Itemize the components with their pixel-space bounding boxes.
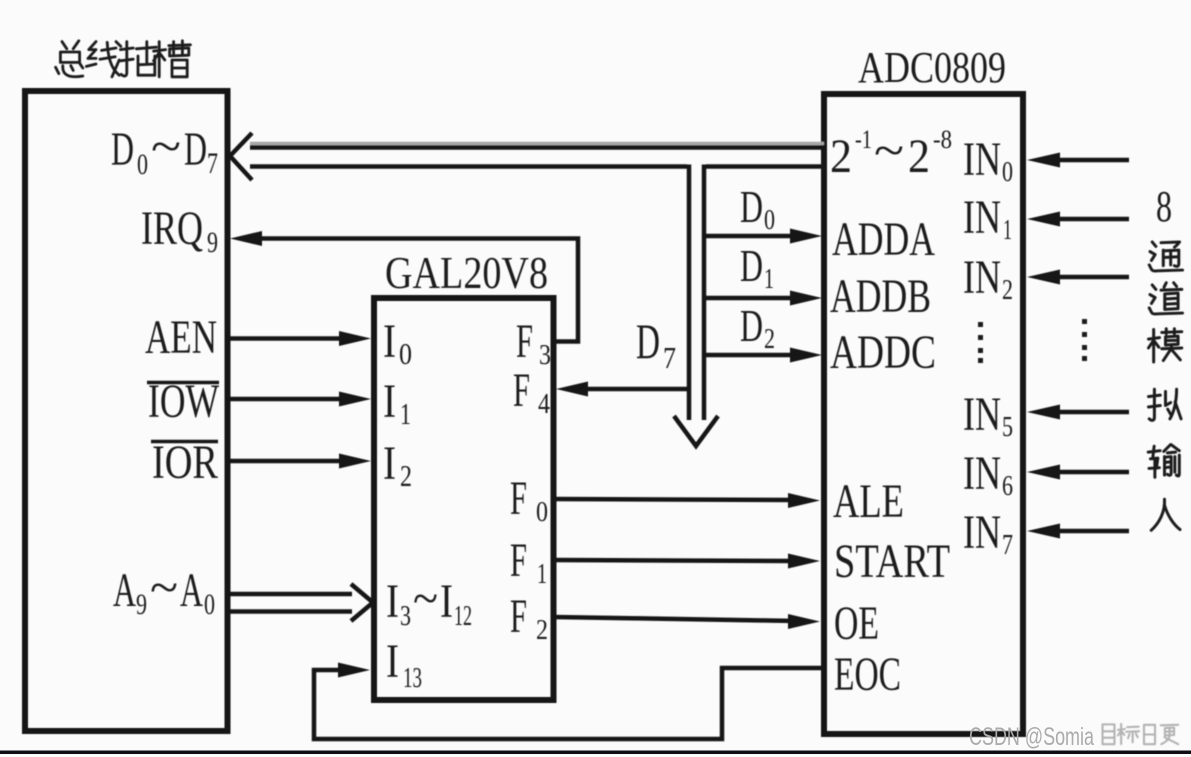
svg-text:13: 13 [403, 663, 422, 694]
wire bus D0~D7 from ADC to bus slot (double line with open arrow) [230, 133, 824, 180]
ellipsis dots inside ADC IN column [978, 322, 983, 363]
svg-text:CSDN @Somia: CSDN @Somia [969, 723, 1094, 751]
svg-text:1: 1 [400, 396, 411, 431]
net D7 to F4 [556, 382, 689, 397]
pin label IRQ9 (bus slot) [141, 202, 218, 259]
svg-text:3: 3 [400, 601, 411, 632]
svg-text:D: D [636, 313, 660, 369]
svg-text:0: 0 [204, 588, 215, 621]
bottom page rule [0, 751, 1191, 755]
net EOC feedback to I13 [314, 663, 824, 740]
svg-text:IN: IN [963, 251, 1001, 304]
svg-text:ADDA: ADDA [832, 213, 935, 266]
GAL20V8 block U1 [374, 298, 554, 700]
pin label IN1 (ADC) [963, 191, 1012, 246]
svg-text:D: D [740, 300, 763, 351]
svg-text:0: 0 [137, 148, 148, 181]
svg-text:6: 6 [1002, 471, 1013, 502]
net F3 to IRQ9 [230, 231, 578, 342]
watermark char 目 [1103, 724, 1115, 744]
wire IOR to I2 [229, 454, 371, 469]
wire F1 to START [553, 554, 820, 569]
wire F2 to OE [553, 614, 820, 629]
pin label D0~D7 (bus slot) [111, 120, 218, 181]
svg-text:A: A [180, 564, 203, 617]
title char 插 (bus slot title) [120, 42, 156, 76]
pin label F0 (GAL) [510, 472, 548, 528]
right column char 入 [1151, 499, 1180, 530]
pin label F4 (GAL) [513, 364, 550, 420]
svg-text:I: I [383, 437, 396, 490]
pin label I3~I12 (GAL) [386, 572, 472, 632]
pin label I2 (GAL) [383, 437, 412, 493]
svg-text:ADDC: ADDC [830, 326, 936, 379]
wire AEN to I0 [229, 331, 371, 346]
wire D1 to ADDB [704, 291, 822, 306]
svg-text:12: 12 [454, 601, 472, 632]
svg-text:9: 9 [136, 588, 147, 621]
svg-text:2: 2 [1002, 275, 1013, 306]
pin label IN2 (ADC) [963, 251, 1013, 306]
svg-text:F: F [513, 364, 530, 417]
svg-text:2: 2 [908, 130, 930, 183]
wire bus A9~A0 to I3~I12 (double line with open arrow) [229, 584, 373, 621]
svg-text:I: I [383, 375, 396, 428]
title char 总 (bus slot title) [56, 41, 83, 77]
pin label IOW with overline (bus slot) [147, 375, 220, 428]
wire IOW to I1 [229, 392, 371, 407]
svg-text:I: I [386, 575, 399, 628]
pin label F2 (GAL) [510, 590, 548, 646]
net label D0 [740, 181, 775, 236]
svg-text:START: START [834, 535, 950, 588]
wire D2 to ADDC [704, 348, 822, 363]
wire F0 to ALE [553, 493, 820, 508]
title char 槽 (bus slot title) [154, 41, 191, 77]
svg-text:2: 2 [830, 130, 852, 183]
svg-text:IN: IN [963, 388, 1001, 441]
svg-text:2: 2 [400, 458, 412, 493]
svg-text:OE: OE [834, 597, 879, 650]
svg-text:IN: IN [963, 133, 1001, 186]
svg-text:~: ~ [874, 124, 904, 177]
svg-text:2: 2 [536, 615, 548, 646]
right column char 道 [1149, 283, 1182, 314]
ADC0809 block U2 [824, 94, 1023, 734]
svg-text:F: F [516, 315, 533, 368]
ellipsis dots on analog input lines [1082, 319, 1087, 361]
pin label F1 (GAL) [510, 534, 547, 590]
svg-text:F: F [510, 472, 527, 525]
svg-text:7: 7 [1002, 530, 1013, 561]
right column char 通 [1149, 242, 1182, 271]
svg-text:F: F [510, 590, 527, 643]
svg-text:~: ~ [151, 120, 181, 173]
svg-text:0: 0 [399, 336, 412, 371]
svg-text:D: D [184, 123, 207, 176]
right column char 模 [1148, 329, 1181, 362]
pin label A9~A0 (bus slot) [113, 561, 215, 621]
svg-text:1: 1 [764, 263, 774, 295]
svg-text:I: I [383, 315, 396, 368]
svg-text:D: D [111, 123, 134, 176]
wire analog input IN5 [1027, 405, 1129, 420]
pin label IOR with overline (bus slot) [151, 436, 218, 489]
pin label I0 (GAL) [383, 315, 412, 371]
svg-text:D: D [740, 240, 763, 291]
svg-text:0: 0 [1002, 157, 1013, 188]
svg-text:EOC: EOC [834, 648, 901, 701]
svg-text:ADDB: ADDB [830, 270, 931, 323]
svg-text:IN: IN [963, 506, 1001, 559]
svg-text:IOR: IOR [152, 436, 218, 489]
svg-text:ALE: ALE [833, 475, 904, 528]
watermark char 日 [1144, 725, 1155, 744]
svg-text:F: F [510, 534, 527, 587]
svg-text:-1: -1 [855, 125, 872, 154]
svg-text:GAL20V8: GAL20V8 [385, 247, 548, 298]
pin label IN6 (ADC) [963, 447, 1013, 502]
title char 线 (bus slot title) [86, 42, 120, 77]
net label D2 [740, 300, 775, 355]
svg-text:IRQ: IRQ [141, 202, 203, 255]
svg-text:-8: -8 [933, 125, 952, 154]
svg-text:3: 3 [539, 340, 551, 371]
svg-text:7: 7 [207, 147, 218, 180]
pin label 2^-1 ~ 2^-8 (ADC) [830, 124, 952, 183]
svg-text:9: 9 [207, 226, 218, 259]
svg-text:8: 8 [1156, 182, 1172, 231]
pin label IN7 (ADC) [963, 506, 1013, 561]
svg-text:1: 1 [537, 559, 547, 590]
watermark char 标 [1118, 724, 1139, 744]
svg-text:A: A [113, 564, 136, 617]
right column char 拟 [1148, 389, 1181, 420]
svg-text:1: 1 [1003, 215, 1012, 246]
bus slot block 总线插槽 [25, 91, 228, 731]
wire bus drop D7 (vertical double line with open arrow) [674, 165, 718, 447]
svg-text:4: 4 [538, 389, 550, 420]
svg-text:~: ~ [413, 572, 438, 625]
pin label IN5 (ADC) [963, 388, 1013, 443]
wire analog input IN2 [1027, 270, 1129, 285]
net label D7 [636, 313, 676, 375]
wire analog input IN1 [1027, 212, 1129, 227]
net label D1 [740, 240, 774, 295]
svg-text:~: ~ [150, 561, 178, 614]
svg-text:0: 0 [536, 497, 548, 528]
svg-text:5: 5 [1002, 412, 1013, 443]
svg-text:ADC0809: ADC0809 [858, 43, 1006, 92]
right column char 输 [1148, 445, 1179, 478]
svg-text:IN: IN [963, 447, 1001, 500]
svg-text:2: 2 [764, 323, 775, 355]
watermark char 更 [1161, 725, 1178, 744]
pin label IN0 (ADC) [963, 133, 1013, 188]
svg-text:7: 7 [663, 340, 676, 375]
pin label I13 (GAL) [386, 635, 422, 694]
svg-text:D: D [740, 181, 763, 232]
svg-text:AEN: AEN [145, 311, 217, 364]
wire analog input IN6 [1027, 465, 1129, 480]
wire analog input IN7 [1027, 524, 1129, 539]
wire D0 to ADDA [704, 229, 822, 244]
svg-text:I: I [386, 635, 399, 688]
pin label F3 (GAL) [516, 315, 551, 371]
wire analog input IN0 [1027, 153, 1129, 168]
svg-text:0: 0 [764, 204, 775, 236]
pin label I1 (GAL) [383, 375, 411, 431]
svg-text:I: I [440, 575, 453, 628]
svg-text:IN: IN [963, 191, 1001, 244]
